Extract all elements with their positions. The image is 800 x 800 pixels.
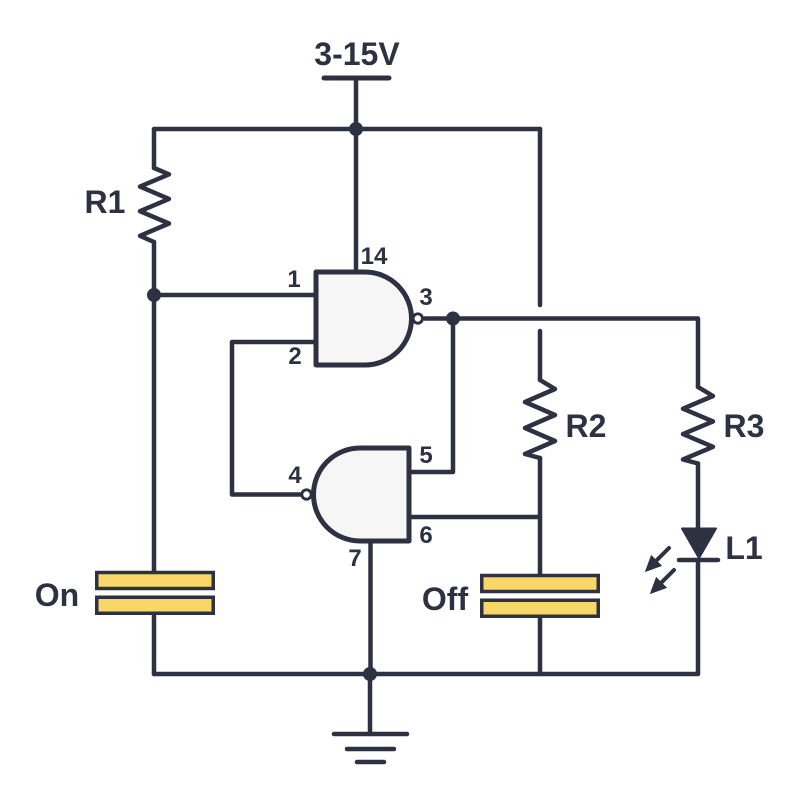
svg-text:R2: R2 (566, 408, 607, 444)
capacitor On touch pad (97, 573, 214, 614)
svg-text:Off: Off (422, 581, 469, 617)
wire top rail (154, 129, 540, 168)
wire pin 6 (409, 515, 540, 520)
svg-text:5: 5 (419, 442, 432, 469)
resistor R1 (140, 168, 169, 242)
svg-text:3-15V: 3-15V (314, 36, 400, 72)
wire pin 1 (154, 293, 316, 298)
svg-text:On: On (35, 577, 79, 613)
svg-text:R1: R1 (85, 184, 126, 220)
svg-text:R3: R3 (724, 408, 765, 444)
wire feedback pin2 to pin4 (232, 342, 316, 495)
wire Off pad to bottom rail (538, 618, 543, 674)
node junction ground (363, 667, 377, 681)
op-amp gate U1A NAND pins 1,2,3,14 (316, 272, 422, 365)
wire pin 7 (368, 541, 373, 674)
wire R3 to LED (696, 464, 701, 530)
wire power stub to pin 14 (354, 78, 359, 272)
svg-text:1: 1 (287, 266, 300, 293)
svg-text:3: 3 (419, 284, 432, 311)
wire right branch upper (538, 129, 543, 305)
op-amp gate U1B NAND pins 4,5,6,7 (302, 448, 409, 541)
resistor R2 (525, 380, 555, 458)
resistor R3 (683, 387, 713, 464)
LED arrow 1 (641, 543, 674, 576)
wire pin 5 (409, 319, 453, 473)
svg-text:2: 2 (288, 343, 301, 370)
wire On pad to bottom rail (152, 615, 157, 674)
ground (368, 674, 373, 734)
wire output pin3 to R3 (425, 319, 698, 388)
node junction R1/pin1 (147, 288, 161, 302)
wire right branch lower (538, 331, 543, 380)
svg-text:6: 6 (419, 522, 432, 549)
wire LED to bottom rail (154, 560, 698, 674)
svg-text:14: 14 (361, 243, 388, 270)
svg-text:4: 4 (288, 462, 302, 489)
power bar VCC (324, 76, 389, 81)
node junction output (446, 312, 460, 326)
LED arrow 2 (646, 565, 679, 598)
node junction top (349, 122, 363, 136)
wire R2 to Off pad (538, 458, 543, 574)
LED L1 diode (679, 529, 718, 561)
svg-text:7: 7 (348, 545, 361, 572)
capacitor Off touch pad (482, 576, 599, 617)
svg-text:L1: L1 (725, 530, 762, 566)
wire left branch mid (152, 242, 157, 571)
